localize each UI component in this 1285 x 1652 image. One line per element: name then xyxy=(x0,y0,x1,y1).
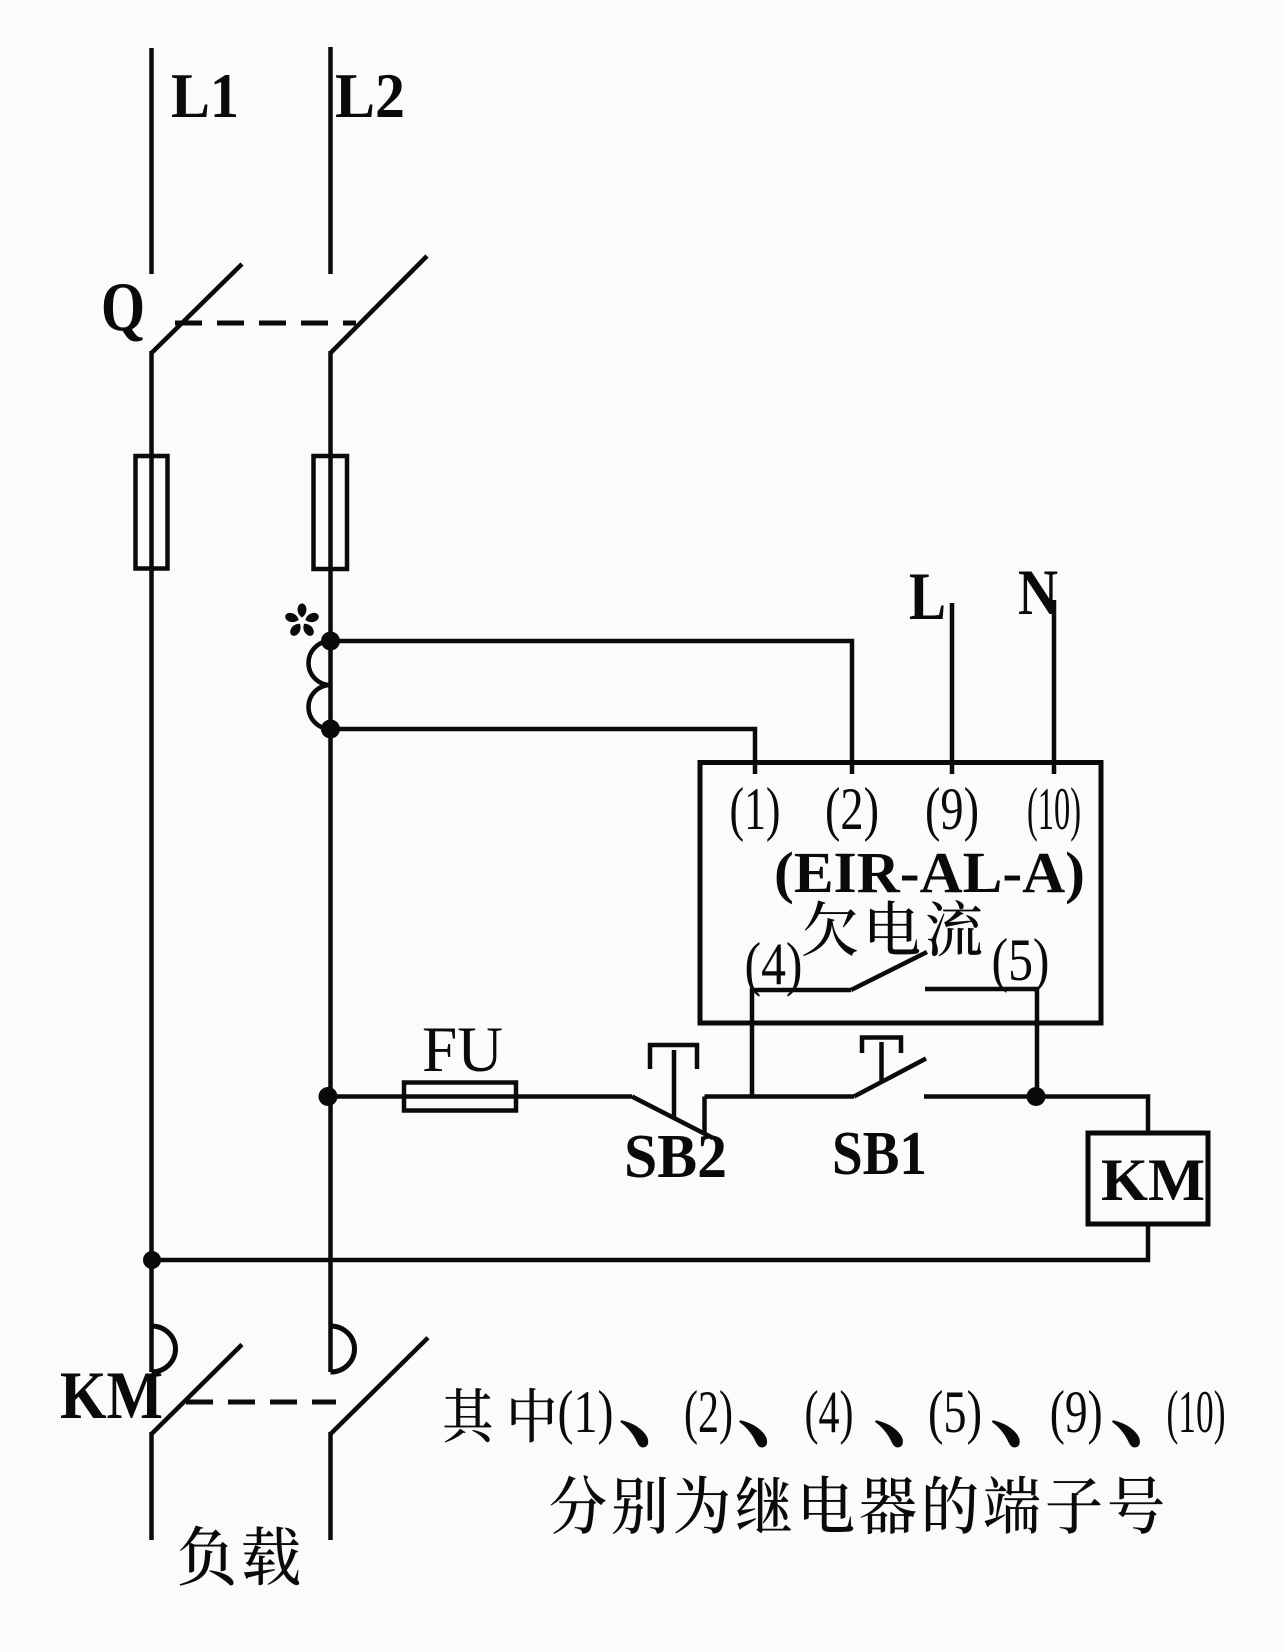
svg-text:L2: L2 xyxy=(335,60,405,131)
svg-text:SB2: SB2 xyxy=(624,1123,727,1191)
relay type label (EIR-AL-A) xyxy=(774,840,1085,905)
label L1 xyxy=(171,60,239,131)
wire L1 phase middle xyxy=(149,351,154,1372)
fuse FU body xyxy=(404,1083,516,1111)
relay pin (1) xyxy=(730,776,781,842)
contactor KM pole-2 blade xyxy=(331,1338,429,1434)
relay pin (2) xyxy=(825,776,879,842)
svg-text:(9): (9) xyxy=(1050,1379,1103,1445)
svg-text:SB1: SB1 xyxy=(832,1120,927,1188)
svg-text:(4): (4) xyxy=(745,931,803,997)
pushbutton SB1 blade (NO) xyxy=(854,1059,926,1097)
note line 2: 分别为继电器的端子号 xyxy=(551,1475,1163,1534)
svg-text:(9): (9) xyxy=(925,776,979,842)
svg-text:KM: KM xyxy=(60,1357,163,1433)
svg-text:(10): (10) xyxy=(1027,776,1081,842)
pushbutton SB2 blade (NC) xyxy=(632,1097,713,1139)
relay pin (9) xyxy=(925,776,979,842)
pushbutton SB1 plunger stem xyxy=(879,1042,884,1083)
relay output contact blade xyxy=(851,952,927,990)
svg-text:(4): (4) xyxy=(805,1379,854,1445)
label KM (main contacts) xyxy=(60,1357,163,1433)
CT secondary terminal node (bottom dot) xyxy=(321,720,340,739)
current transformer winding loops xyxy=(309,641,331,729)
svg-text:(5): (5) xyxy=(928,1379,982,1445)
switch Q linkage dashed xyxy=(175,321,356,326)
wire L supply to terminal (9) xyxy=(950,603,955,774)
label FU xyxy=(422,1014,503,1086)
pushbutton SB2 right terminal xyxy=(702,1097,707,1134)
relay function label 欠电流 xyxy=(803,900,981,956)
wire L1 to load xyxy=(149,1432,154,1540)
contactor KM linkage dashed xyxy=(186,1400,336,1405)
wire control from L2 tap to SB2 xyxy=(331,1094,633,1099)
node: return junction on L1 xyxy=(143,1251,161,1269)
relay pin (5) xyxy=(992,927,1050,993)
label SB1 xyxy=(832,1120,927,1188)
note line 1: 其中(1)、(2)、(4)、(5)、(9)、(10) xyxy=(444,1379,1225,1447)
svg-text:FU: FU xyxy=(422,1014,503,1086)
label Q xyxy=(101,269,145,346)
svg-text:(EIR-AL-A): (EIR-AL-A) xyxy=(774,840,1085,905)
wire L2 phase middle xyxy=(328,351,333,1372)
svg-text:Q: Q xyxy=(101,269,145,346)
relay pin (10) xyxy=(1027,776,1081,842)
wire CT top to relay terminal (2) xyxy=(331,641,853,774)
relay pin (4) xyxy=(745,931,803,997)
wire KM coil return to L1 xyxy=(152,1224,1148,1260)
wire N supply to terminal (10) xyxy=(1052,600,1057,774)
CT primary terminal node (top dot) xyxy=(321,632,340,651)
switch Q pole-2 blade xyxy=(331,256,428,353)
wire L2 to load xyxy=(328,1432,333,1540)
switch Q pole-1 blade xyxy=(152,264,243,353)
label 负载 (load) xyxy=(180,1526,299,1586)
wire SB1 to KM coil corner xyxy=(924,1097,1148,1134)
contactor KM pole-2 arc xyxy=(331,1326,355,1372)
svg-text:L: L xyxy=(909,558,946,634)
label N xyxy=(1018,557,1058,629)
svg-text:(10): (10) xyxy=(1167,1379,1226,1445)
contactor coil KM box xyxy=(1088,1133,1208,1224)
relay output contact (5) lead xyxy=(925,989,1037,1097)
wire CT bottom to relay terminal (1) xyxy=(331,729,756,774)
contactor KM pole-1 blade xyxy=(152,1345,243,1435)
node: junction of (5) lead and coil wire xyxy=(1027,1087,1046,1106)
fuse on L1 xyxy=(136,456,168,569)
label L2 xyxy=(335,60,405,131)
label L xyxy=(909,558,946,634)
svg-text:(1): (1) xyxy=(730,776,781,842)
fuse on L2 xyxy=(314,456,348,569)
svg-text:L1: L1 xyxy=(171,60,239,131)
svg-text:(2): (2) xyxy=(825,776,879,842)
relay U1 (EIR-AL-A) box outline xyxy=(700,763,1101,1024)
contactor KM pole-1 arc xyxy=(152,1326,176,1372)
node: control tap on L2 xyxy=(319,1087,338,1106)
pushbutton SB1 actuator bracket xyxy=(862,1038,901,1054)
label KM (coil) xyxy=(1101,1147,1205,1213)
pushbutton SB2 plunger stem xyxy=(672,1050,677,1118)
wire L1 phase upper xyxy=(149,48,154,274)
svg-text:(5): (5) xyxy=(992,927,1050,993)
CT polarity mark * xyxy=(284,604,320,638)
wire SB2 to SB1 xyxy=(705,1094,855,1099)
svg-text:(1): (1) xyxy=(558,1379,614,1445)
label SB2 xyxy=(624,1123,727,1191)
svg-text:(2): (2) xyxy=(684,1379,733,1445)
svg-text:KM: KM xyxy=(1101,1147,1205,1213)
pushbutton SB2 actuator bracket xyxy=(650,1045,697,1069)
wire L2 phase upper xyxy=(328,47,333,274)
relay output contact fixed side (4) lead xyxy=(752,990,851,1097)
